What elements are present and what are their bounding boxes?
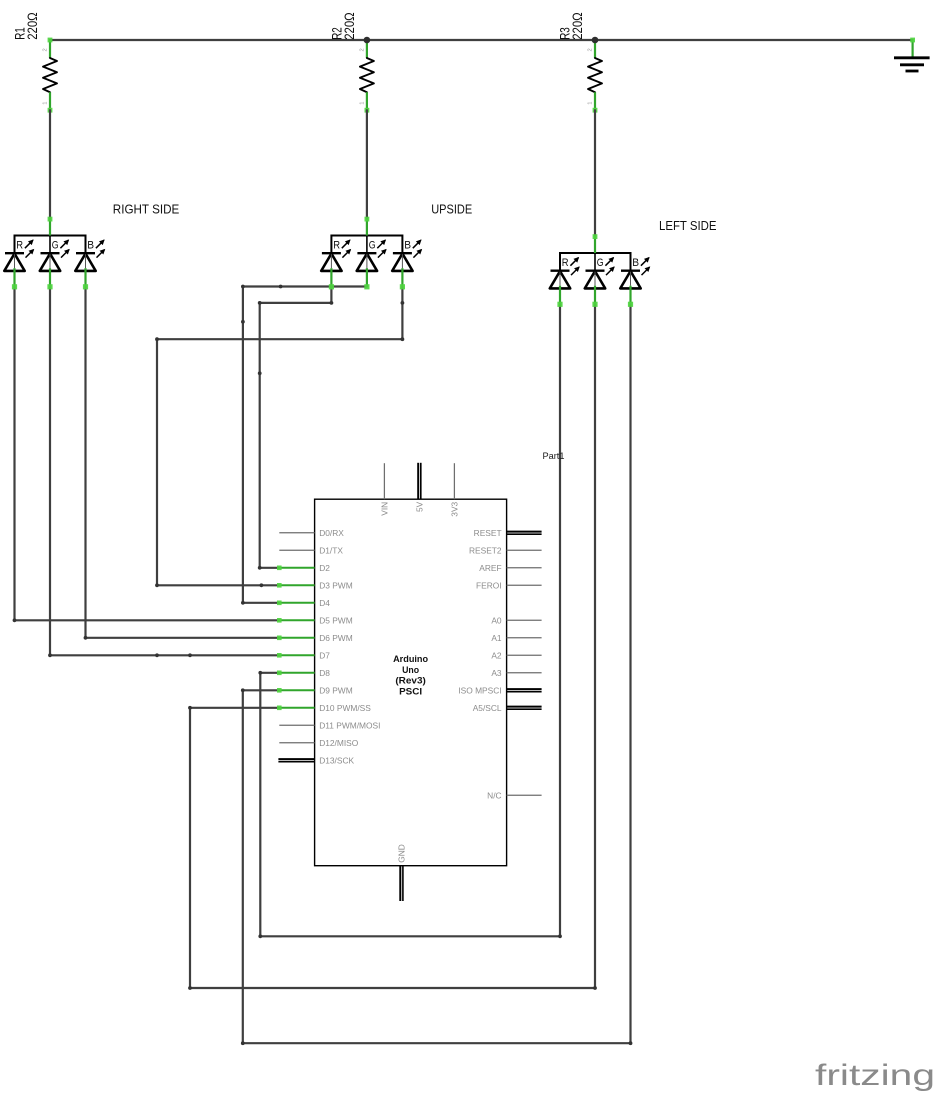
pin A1 bbox=[491, 633, 541, 643]
svg-text:D8: D8 bbox=[319, 668, 330, 678]
pin D4 bbox=[277, 598, 330, 608]
R2 pin 2 bbox=[360, 40, 367, 58]
R2 pin 1 bbox=[360, 92, 370, 112]
svg-text:220Ω: 220Ω bbox=[342, 12, 357, 40]
svg-text:R: R bbox=[333, 240, 340, 252]
svg-text:D2: D2 bbox=[319, 563, 330, 573]
svg-text:220Ω: 220Ω bbox=[25, 12, 40, 40]
wire: D8 to LEFT-R LED bbox=[258, 304, 561, 938]
pin D3 PWM bbox=[277, 580, 353, 590]
svg-text:R: R bbox=[562, 257, 569, 269]
ground bbox=[894, 38, 930, 71]
pin A3 bbox=[491, 668, 541, 678]
svg-text:RIGHT SIDE: RIGHT SIDE bbox=[113, 202, 180, 217]
label R1 220&#937; bbox=[13, 12, 40, 40]
RIGHT group common pin bbox=[48, 217, 53, 236]
svg-text:D1/TX: D1/TX bbox=[319, 545, 343, 555]
label: Part1 bbox=[543, 451, 565, 461]
resistor R3 zigzag body bbox=[588, 58, 602, 92]
resistor R2 (220 ohm) bbox=[330, 12, 374, 112]
pin A2 bbox=[491, 650, 541, 660]
svg-text:5V: 5V bbox=[415, 501, 425, 512]
pin 3V3 bbox=[450, 463, 460, 517]
label R3 220&#937; bbox=[558, 12, 585, 40]
svg-text:D5 PWM: D5 PWM bbox=[319, 615, 353, 625]
svg-text:B: B bbox=[632, 257, 639, 269]
svg-text:LEFT SIDE: LEFT SIDE bbox=[659, 218, 717, 233]
wire: UPSIDE-R LED to D2 bbox=[258, 287, 333, 570]
svg-text:UPSIDE: UPSIDE bbox=[431, 202, 472, 217]
wire: D10 PWM/SS to LEFT-G LED bbox=[188, 304, 597, 990]
pin AREF bbox=[479, 563, 541, 573]
pin D5 PWM bbox=[277, 615, 353, 625]
wire: RIGHT-G LED to D7 bbox=[48, 287, 279, 658]
wire: UPSIDE-G LED to D4 bbox=[241, 285, 367, 605]
svg-text:(Rev3): (Rev3) bbox=[395, 676, 426, 687]
wire: D9 PWM to LEFT-B LED bbox=[241, 304, 632, 1045]
LED RIGHT-B bbox=[75, 240, 104, 290]
wire: RIGHT-B LED to D6 PWM bbox=[84, 287, 280, 640]
RGB LED group LEFT: common bracket bbox=[560, 253, 631, 271]
pin 5V bbox=[415, 463, 425, 512]
wire: R3 pin1 to LEFT SIDE LED group bbox=[594, 110, 596, 236]
LED LEFT-G bbox=[585, 257, 614, 307]
label: part name Arduino Uno (Rev3) PSCI bbox=[393, 654, 428, 697]
junction: R2 pin2 on ground bus bbox=[364, 37, 371, 44]
svg-text:2: 2 bbox=[360, 48, 366, 51]
LED UPSIDE-B bbox=[392, 240, 421, 290]
pin D7 bbox=[277, 650, 330, 660]
R3 pin 1 bbox=[588, 92, 598, 112]
svg-text:3V3: 3V3 bbox=[450, 501, 460, 516]
LED LEFT-B bbox=[620, 257, 649, 307]
svg-text:A0: A0 bbox=[491, 615, 502, 625]
wire: RIGHT-R LED to D5 PWM bbox=[13, 287, 280, 623]
LED UPSIDE-G bbox=[357, 240, 386, 290]
svg-text:D0/RX: D0/RX bbox=[319, 528, 344, 538]
svg-text:2: 2 bbox=[43, 48, 49, 51]
RGB LED group RIGHT: common bracket bbox=[15, 236, 86, 254]
svg-text:PSCI: PSCI bbox=[399, 686, 422, 697]
svg-text:G: G bbox=[597, 257, 604, 269]
svg-text:D12/MISO: D12/MISO bbox=[319, 738, 359, 748]
svg-text:R: R bbox=[16, 240, 23, 252]
RGB LED group UPSIDE: common bracket bbox=[331, 236, 402, 254]
svg-text:D10 PWM/SS: D10 PWM/SS bbox=[319, 703, 371, 713]
svg-text:N/C: N/C bbox=[487, 790, 501, 800]
svg-text:1: 1 bbox=[360, 102, 366, 105]
pin RESET2 bbox=[469, 545, 542, 555]
resistor R3 (220 ohm) bbox=[558, 12, 602, 112]
svg-text:D6 PWM: D6 PWM bbox=[319, 633, 353, 643]
svg-text:D7: D7 bbox=[319, 650, 330, 660]
svg-text:FEROI: FEROI bbox=[476, 580, 502, 590]
svg-text:220Ω: 220Ω bbox=[570, 12, 585, 40]
svg-text:1: 1 bbox=[43, 102, 49, 105]
svg-text:Uno: Uno bbox=[402, 665, 419, 676]
pin N/C bbox=[487, 790, 541, 800]
svg-text:AREF: AREF bbox=[479, 563, 501, 573]
svg-text:A3: A3 bbox=[491, 668, 502, 678]
junction: R3 pin2 on ground bus bbox=[592, 37, 599, 44]
resistor R1 zigzag body bbox=[43, 58, 57, 92]
pin D1/TX bbox=[279, 545, 343, 555]
pin GND bbox=[397, 844, 407, 901]
pin VIN bbox=[380, 463, 390, 516]
svg-text:D3 PWM: D3 PWM bbox=[319, 580, 353, 590]
label: UPSIDE bbox=[431, 202, 472, 217]
Part1 body outline bbox=[315, 499, 507, 866]
svg-text:Part1: Part1 bbox=[543, 451, 565, 461]
R3 pin 2 bbox=[588, 40, 595, 58]
UPSIDE group common pin bbox=[365, 217, 370, 236]
svg-text:G: G bbox=[52, 240, 59, 252]
LED RIGHT-G bbox=[40, 240, 69, 290]
label R2 220&#937; bbox=[330, 12, 357, 40]
svg-text:VIN: VIN bbox=[380, 502, 390, 516]
R1 pin 2 bbox=[43, 40, 50, 58]
svg-text:A2: A2 bbox=[491, 650, 502, 660]
IC Part1: Arduino Uno (Rev3) PSCI bbox=[277, 463, 542, 901]
svg-text:D13/SCK: D13/SCK bbox=[319, 755, 354, 765]
svg-text:RESET2: RESET2 bbox=[469, 545, 502, 555]
pin D11 PWM/MOSI bbox=[279, 720, 380, 730]
svg-text:Arduino: Arduino bbox=[393, 654, 428, 665]
label: LEFT SIDE bbox=[659, 218, 717, 233]
svg-text:GND: GND bbox=[397, 844, 407, 863]
wire: R1 pin1 to RIGHT SIDE LED group bbox=[49, 110, 51, 218]
LED LEFT-R bbox=[550, 257, 579, 307]
pin D10 PWM/SS bbox=[277, 703, 371, 713]
svg-text:A5/SCL: A5/SCL bbox=[473, 703, 502, 713]
pin D8 bbox=[277, 668, 330, 678]
resistor R2 zigzag body bbox=[360, 58, 374, 92]
svg-text:D4: D4 bbox=[319, 598, 330, 608]
wire: R2 pin1 to UPSIDE LED group bbox=[366, 110, 368, 218]
svg-text:G: G bbox=[369, 240, 376, 252]
pin RESET bbox=[474, 528, 542, 538]
wire: UPSIDE-B LED to D3 PWM bbox=[155, 287, 404, 588]
svg-text:ISO MPSCI: ISO MPSCI bbox=[458, 685, 501, 695]
resistor R1 (220 ohm) bbox=[13, 12, 57, 112]
pin D13/SCK bbox=[278, 755, 354, 765]
pin A5/SCL bbox=[473, 703, 542, 713]
svg-text:D9 PWM: D9 PWM bbox=[319, 685, 353, 695]
svg-text:fritzing: fritzing bbox=[815, 1059, 935, 1092]
label: RIGHT SIDE bbox=[113, 202, 180, 217]
pin D9 PWM bbox=[277, 685, 353, 695]
svg-text:2: 2 bbox=[588, 48, 594, 51]
wire: top ground bus from R1 to ground bbox=[50, 39, 913, 41]
svg-text:B: B bbox=[87, 240, 94, 252]
fritzing logo bbox=[815, 1059, 935, 1092]
pin D12/MISO bbox=[279, 738, 358, 748]
svg-text:D11 PWM/MOSI: D11 PWM/MOSI bbox=[319, 720, 380, 730]
LEFT group common pin bbox=[593, 234, 598, 253]
pin D6 PWM bbox=[277, 633, 353, 643]
R1 pin 1 bbox=[43, 92, 53, 112]
LED UPSIDE-R bbox=[321, 240, 350, 290]
pin A0 bbox=[491, 615, 541, 625]
svg-text:RESET: RESET bbox=[474, 528, 502, 538]
svg-text:A1: A1 bbox=[491, 633, 502, 643]
pin D0/RX bbox=[279, 528, 344, 538]
LED RIGHT-R bbox=[4, 240, 33, 290]
pin FEROI bbox=[476, 580, 542, 590]
pin D2 bbox=[277, 563, 330, 573]
svg-text:1: 1 bbox=[588, 102, 594, 105]
svg-text:B: B bbox=[404, 240, 411, 252]
pin ISO MPSCI bbox=[458, 685, 541, 695]
